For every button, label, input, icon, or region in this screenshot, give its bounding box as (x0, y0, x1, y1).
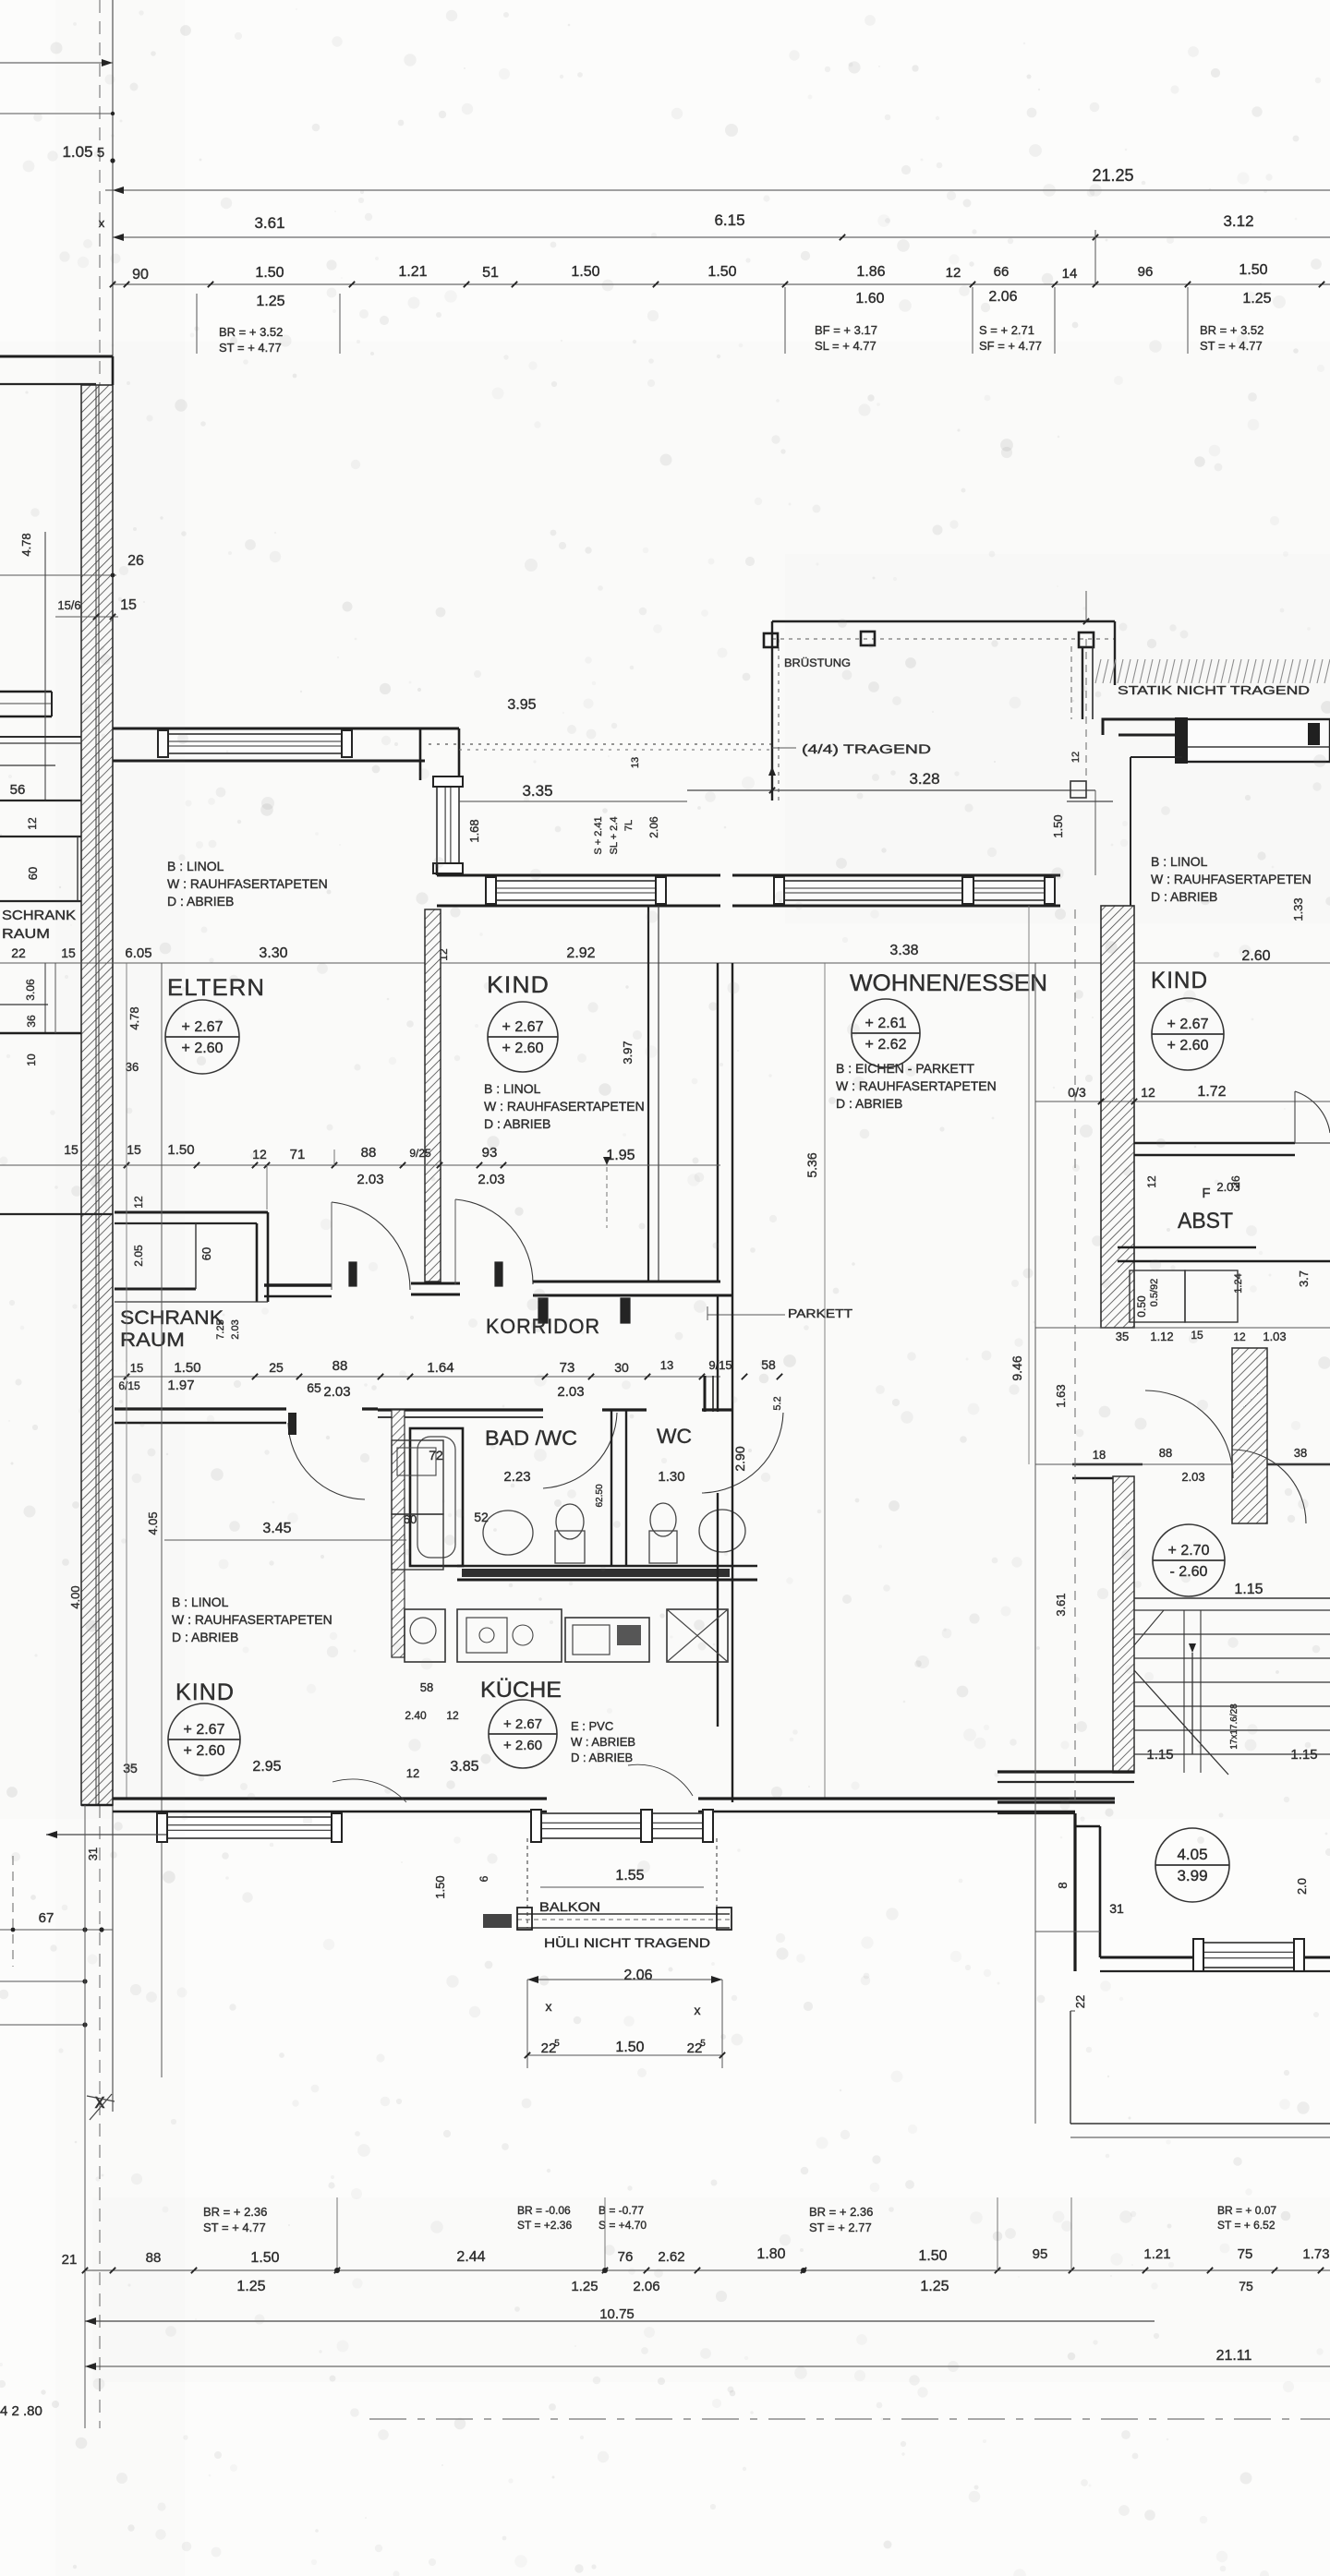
SCHRANKRAUM walls (115, 1211, 268, 1214)
KIND top wall with window (437, 874, 720, 877)
top chain row B y257 (113, 236, 1330, 238)
balcony side dotted lines (526, 1838, 528, 1928)
vertical dim line left x122 (112, 0, 114, 2112)
scan noise blobs (849, 63, 853, 67)
left short lines y2146 y2193 (0, 1980, 85, 1982)
ABST bottom walls (1118, 1246, 1256, 1249)
svg-text:BR = + 3.52: BR = + 3.52 (219, 325, 283, 339)
right KIND level circle (1152, 998, 1224, 1070)
balcony chain 22.5 1.50 22.5 (526, 1838, 528, 2055)
door arc KIND mid (455, 1199, 533, 1284)
kitchen balcony door window (540, 1813, 704, 1838)
balcony dim 2.06 (527, 1979, 722, 1980)
svg-text:12: 12 (946, 265, 961, 281)
top chain 21.25 line y206 (105, 189, 1330, 191)
BAD WC separation wall (611, 1410, 612, 1566)
neighbour window top (0, 691, 52, 693)
stair door hatched wall (1232, 1348, 1267, 1523)
WC door arc (702, 1413, 783, 1493)
party wall hatched WOHNEN/right (1101, 906, 1134, 1328)
bottom KIND vertical dim line (161, 963, 163, 2077)
svg-text:BR = + 3.52: BR = + 3.52 (1200, 323, 1263, 337)
svg-text:1.50: 1.50 (1239, 262, 1267, 278)
svg-text:4 2 .80: 4 2 .80 (0, 2403, 42, 2419)
svg-text:1.50: 1.50 (255, 265, 284, 281)
stair bottom walls (997, 1770, 1134, 1773)
zigzag hatch band above right wall (1095, 659, 1330, 683)
svg-text:5: 5 (700, 2039, 706, 2049)
door leaf mark 1 (349, 1262, 357, 1286)
BAD door arc (543, 1413, 617, 1488)
ABST closet boxes (1130, 1270, 1185, 1322)
svg-text:S = + 2.71: S = + 2.71 (979, 323, 1034, 337)
vertical window x473-497 (437, 786, 459, 864)
scan streaks (0, 342, 1330, 1819)
terrace left rail (771, 621, 773, 800)
KIND right wall thin x702 (647, 906, 649, 1282)
terrace posts (764, 633, 778, 647)
WOHNEN top wall with window (732, 874, 1060, 877)
left wall top corner lines (0, 355, 113, 358)
stair treads (1134, 1609, 1330, 1611)
svg-text:22: 22 (1073, 1995, 1087, 2008)
kitchen counters sink (457, 1609, 562, 1662)
mid chain extension verticals (266, 1165, 268, 1210)
svg-text:1.60: 1.60 (855, 291, 884, 307)
ABST door arc (1295, 1091, 1330, 1133)
kitchen right wall (717, 1295, 719, 1412)
svg-text:51: 51 (482, 265, 499, 281)
stair flight verticals (1183, 1610, 1185, 1773)
small shaft box on party wall (1070, 781, 1086, 798)
interior wall T-foot (411, 1282, 460, 1285)
svg-text:21.25: 21.25 (1092, 166, 1133, 185)
svg-text:6: 6 (478, 1875, 490, 1882)
wall jog right of ELTERN (420, 728, 459, 730)
svg-text:1.50: 1.50 (615, 2040, 644, 2055)
right KIND top wall (1103, 719, 1177, 735)
right KIND dim row y1193 (1035, 1101, 1330, 1102)
WC toilet (649, 1531, 677, 1563)
top-left tick y123 (0, 113, 113, 114)
svg-text:3.61: 3.61 (254, 214, 284, 232)
BAD toilet (555, 1531, 585, 1563)
svg-text:31: 31 (1109, 1901, 1124, 1916)
mid dim chain y1262 (113, 1164, 720, 1166)
svg-text:14: 14 (1062, 266, 1078, 282)
svg-text:2.06: 2.06 (623, 1968, 652, 1983)
terrace top tick (1085, 591, 1087, 621)
svg-text:1.86: 1.86 (856, 264, 885, 280)
door arc corridor to bottom KIND (288, 1423, 365, 1499)
kitchen top heavy wall (457, 1565, 757, 1568)
treppenhaus level circle (1153, 1524, 1225, 1596)
left bottom small ticks (55, 1938, 85, 1940)
right KIND inner face (1130, 756, 1182, 758)
ELTERN level circle (165, 1000, 239, 1074)
stair hatched wall left (1113, 1476, 1134, 1773)
right balcony door window (1203, 1943, 1295, 1968)
long bottom line y2563 (85, 2365, 1330, 2367)
svg-text:1.50: 1.50 (571, 264, 599, 280)
stair hall dim row y1586 (1035, 1463, 1330, 1465)
long bottom line y2514 (85, 2320, 1155, 2322)
svg-text:1.50: 1.50 (433, 1875, 447, 1898)
corridor chain y1491 (113, 1376, 720, 1378)
balcony end posts (517, 1908, 532, 1930)
svg-text:96: 96 (1138, 264, 1154, 280)
door leaf mark 2 (495, 1262, 502, 1286)
dashed bottom line y2620 (369, 2418, 1330, 2420)
svg-text:66: 66 (994, 264, 1010, 280)
right chain y1432 (1035, 1327, 1330, 1329)
right lower wall with balcony door (1100, 1956, 1330, 1959)
WOHNEN level circle (852, 999, 920, 1067)
left bottom dim ticks (46, 1834, 166, 1836)
stair hall door arc (1145, 1390, 1233, 1478)
right dashed vertical x1164 (1074, 909, 1076, 1802)
bottom KIND window (166, 1817, 332, 1838)
svg-text:2.06: 2.06 (988, 289, 1017, 305)
svg-text:3.12: 3.12 (1223, 212, 1253, 230)
top-left tick y68 (0, 62, 113, 64)
svg-text:1.21: 1.21 (398, 264, 427, 280)
bottom chain y2459 (85, 2269, 1330, 2271)
svg-text:67: 67 (39, 1910, 54, 1926)
kitchen fridge x-box (667, 1609, 728, 1662)
svg-text:1.25: 1.25 (256, 294, 284, 309)
WC door leaf (621, 1298, 630, 1323)
kitchen wall cabinets along shaft (392, 1440, 443, 1514)
balcony wall stub left (483, 1914, 512, 1928)
corridor bottom walls / BAD top (115, 1407, 286, 1410)
door stub wall corridor (264, 1283, 332, 1287)
stair up arrow (1191, 1653, 1193, 1754)
WC washbasin (699, 1510, 745, 1552)
left dim 67 line y2090 (0, 1929, 113, 1931)
KIND/WOHNEN wall x777 (717, 963, 719, 1282)
left vertical dim line bottom (84, 1805, 86, 2428)
terrace top rail (772, 620, 1115, 622)
svg-text:BALKON: BALKON (539, 1899, 600, 1914)
window curve marks (332, 1779, 406, 1802)
svg-text:5: 5 (554, 2039, 560, 2049)
neighbour vertical line x49 (44, 532, 46, 800)
KIND mid level circle (488, 1002, 558, 1072)
kitchen left cabinets (405, 1609, 445, 1662)
left wall dim 15 tick (55, 616, 118, 618)
long construction line y1043 (0, 962, 1330, 964)
stair hall inner door arcs (1232, 1450, 1306, 1523)
left wall bottom corner (81, 1804, 113, 1807)
svg-text:3.99: 3.99 (1177, 1867, 1207, 1884)
right balcony slab (1070, 2011, 1071, 2124)
svg-text:x: x (695, 2003, 701, 2017)
dotted nicht-tragend line above KIND window (429, 743, 772, 745)
left wall dim 26 tick (0, 574, 116, 576)
left wall inner line (126, 963, 127, 1799)
bath tub (410, 1428, 463, 1566)
terrace right rail (1114, 621, 1116, 685)
svg-text:x: x (546, 1999, 552, 2014)
ABST top walls (1134, 1142, 1295, 1145)
right separation wall column (1082, 646, 1083, 719)
balcony floor edge (517, 1913, 730, 1915)
right balcony L wall (1073, 1813, 1076, 1971)
bottom chain extension verticals (336, 2197, 338, 2270)
right dim vertical x1121 (1034, 963, 1036, 2124)
bottom wall right of kitchen door (698, 1797, 1115, 1800)
terrace inner vertical dashed (1085, 639, 1087, 790)
stair hall top wall (1072, 1463, 1143, 1466)
bottom outer wall left section (113, 1797, 425, 1800)
svg-text:8: 8 (1056, 1882, 1070, 1888)
top chain row C y308 (113, 283, 1330, 285)
bottom KIND level circle (168, 1703, 240, 1776)
door leaf BAD (538, 1298, 548, 1323)
svg-text:1.50: 1.50 (707, 264, 736, 280)
svg-text:2.0: 2.0 (1295, 1878, 1309, 1895)
terrace dim 3.28 (687, 789, 1095, 791)
kitchen stove (565, 1618, 649, 1662)
wall below vertical window (436, 864, 439, 875)
neighbour small room box (0, 836, 81, 837)
row C extension lines (196, 294, 198, 354)
WC door jamb stub (704, 1376, 707, 1412)
corridor top wall mid (533, 1281, 720, 1283)
left outer hatched wall (81, 385, 113, 1805)
bottom chain junction dots (334, 2268, 340, 2273)
ELTERN top wall with window (113, 728, 425, 730)
ELTERN door arc (332, 1202, 410, 1290)
svg-text:HÜLI NICHT TRAGEND: HÜLI NICHT TRAGEND (544, 1934, 710, 1950)
neighbour lower box (0, 1213, 113, 1215)
vertical dashed axis x108 (99, 0, 101, 2428)
svg-text:BF = + 3.17: BF = + 3.17 (815, 323, 877, 337)
svg-text:6.15: 6.15 (714, 211, 744, 229)
BAD washbasin (483, 1511, 533, 1555)
KUECHE level circle (489, 1700, 557, 1768)
stairhall circle 4.05 (1155, 1828, 1229, 1902)
stair diagonal (1134, 1670, 1228, 1775)
right KIND window (1177, 719, 1330, 762)
WOHNEN vertical ref lines (824, 963, 826, 1799)
interior hatched wall x460 (425, 909, 441, 1282)
svg-text:4.05: 4.05 (1177, 1846, 1207, 1863)
shaft hatched strip left of bath (392, 1410, 405, 1657)
